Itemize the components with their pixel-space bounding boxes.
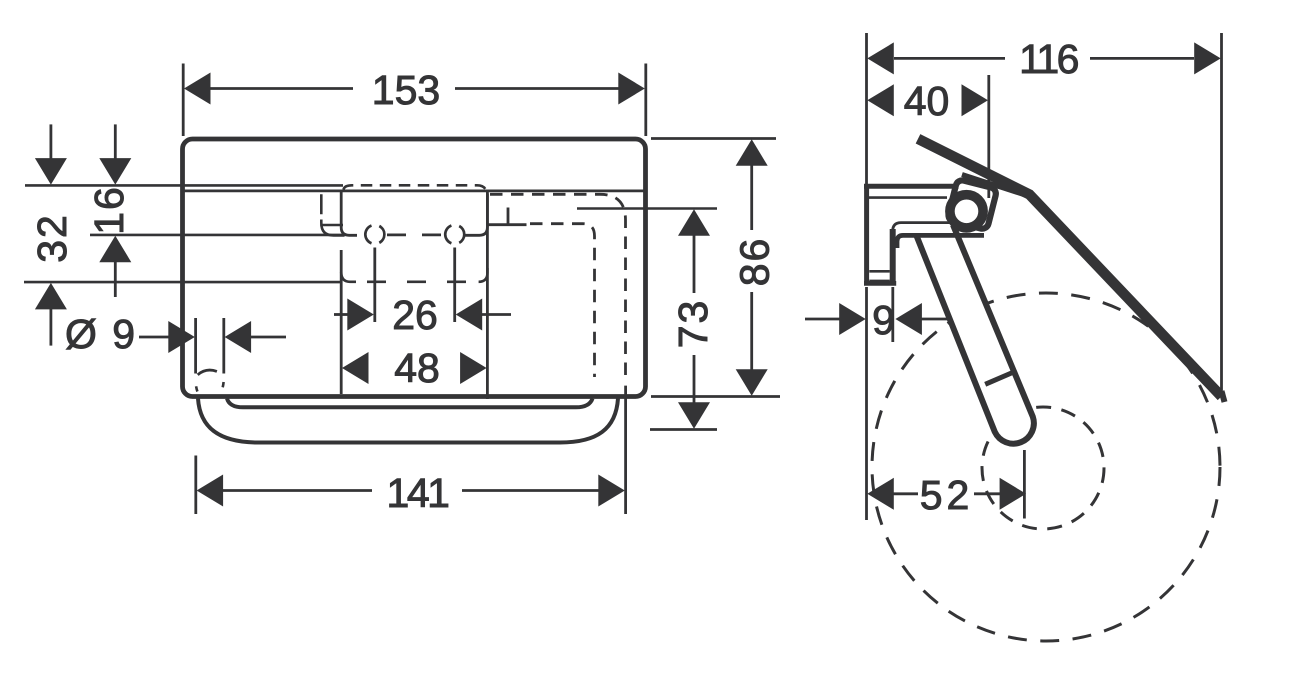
dim 116: [894, 57, 1194, 60]
cover lower edge line: [184, 189, 644, 192]
tray inner line: [227, 399, 593, 408]
left 48 ext line: [340, 250, 343, 394]
swing arm (outlined, white filled, rounded tip): [917, 225, 1034, 444]
dim 141: [196, 386, 626, 514]
reference line 16 bottom: [90, 234, 345, 237]
svg-text:Ø 9: Ø 9: [65, 311, 137, 357]
flap main: [918, 139, 1222, 397]
hinge ring: [950, 195, 983, 228]
outer plate left edge: [321, 194, 344, 235]
plate bottom dashed segments: [387, 234, 406, 237]
dim 26: [334, 313, 348, 316]
dim 16 arrow top: [114, 124, 117, 162]
wall bracket: top plate: [864, 184, 959, 189]
dim 16 arrow bottom: [114, 259, 117, 297]
arm horizontal bottom thick: [897, 235, 984, 248]
big dashed circle (toilet roll): [872, 293, 1220, 641]
left shelf line: [320, 224, 343, 227]
tray outer line: [198, 399, 618, 443]
screw hole left (dashed circle): [365, 226, 384, 244]
dim 40: [867, 84, 894, 116]
roll window outer dashed: [490, 194, 626, 377]
screw hole oh9 (dashed circle arcs, bottom hidden by body edge): [198, 370, 217, 375]
dim 9: [805, 318, 842, 321]
dim 48: [342, 352, 369, 384]
svg-text:32: 32: [29, 213, 75, 263]
arm vertical: [890, 229, 896, 283]
dim 86: [651, 139, 780, 397]
inner plate (48 wide): [341, 190, 357, 235]
dim oh9: [139, 336, 172, 339]
svg-text:26: 26: [392, 292, 438, 338]
svg-text:16: 16: [86, 185, 132, 235]
roll window shelf right: [488, 208, 527, 225]
ext lines: [867, 33, 1222, 390]
body: cover outline: [183, 139, 646, 397]
svg-text:73: 73: [670, 299, 716, 349]
hinge housing (rotated rounded square): [947, 179, 997, 230]
reference line 32 bottom: [24, 281, 341, 284]
svg-text:86: 86: [732, 237, 778, 287]
mounting plate hidden top edge (dashed): [344, 185, 487, 192]
wall bracket left edge: [864, 184, 869, 285]
dim 52: [893, 492, 918, 495]
roll window inner dashed: [530, 224, 595, 377]
inner dashed circle (core): [982, 407, 1104, 529]
oh9 hole ext lines: [194, 318, 197, 374]
bracket foot: [869, 270, 890, 273]
reference line top of mounting plate: [25, 184, 343, 187]
ext lines below bracket: [867, 287, 893, 520]
svg-text:116: 116: [1019, 36, 1078, 82]
right edge vertical of plate region (48 ext): [486, 194, 489, 400]
svg-text:141: 141: [387, 470, 449, 516]
arm horizontal top thin: [893, 223, 950, 231]
svg-text:40: 40: [904, 78, 950, 124]
dim 73: [650, 232, 717, 430]
dim 32 arrows top: [50, 124, 53, 162]
svg-text:52: 52: [920, 472, 974, 518]
leader line for 73: [577, 207, 717, 210]
svg-text:48: 48: [394, 345, 440, 391]
svg-text:153: 153: [372, 67, 440, 113]
dim 32 arrow bottom: [50, 308, 53, 346]
arm cross tick: [985, 373, 1012, 385]
26 ext lines: [373, 248, 376, 323]
screw hole right (dashed circle): [445, 226, 464, 244]
plate lower hidden edge (32) dashed: [341, 272, 356, 282]
dim 153: [183, 64, 646, 137]
flap underside: [962, 175, 1033, 198]
pin axis line: [1023, 450, 1026, 519]
